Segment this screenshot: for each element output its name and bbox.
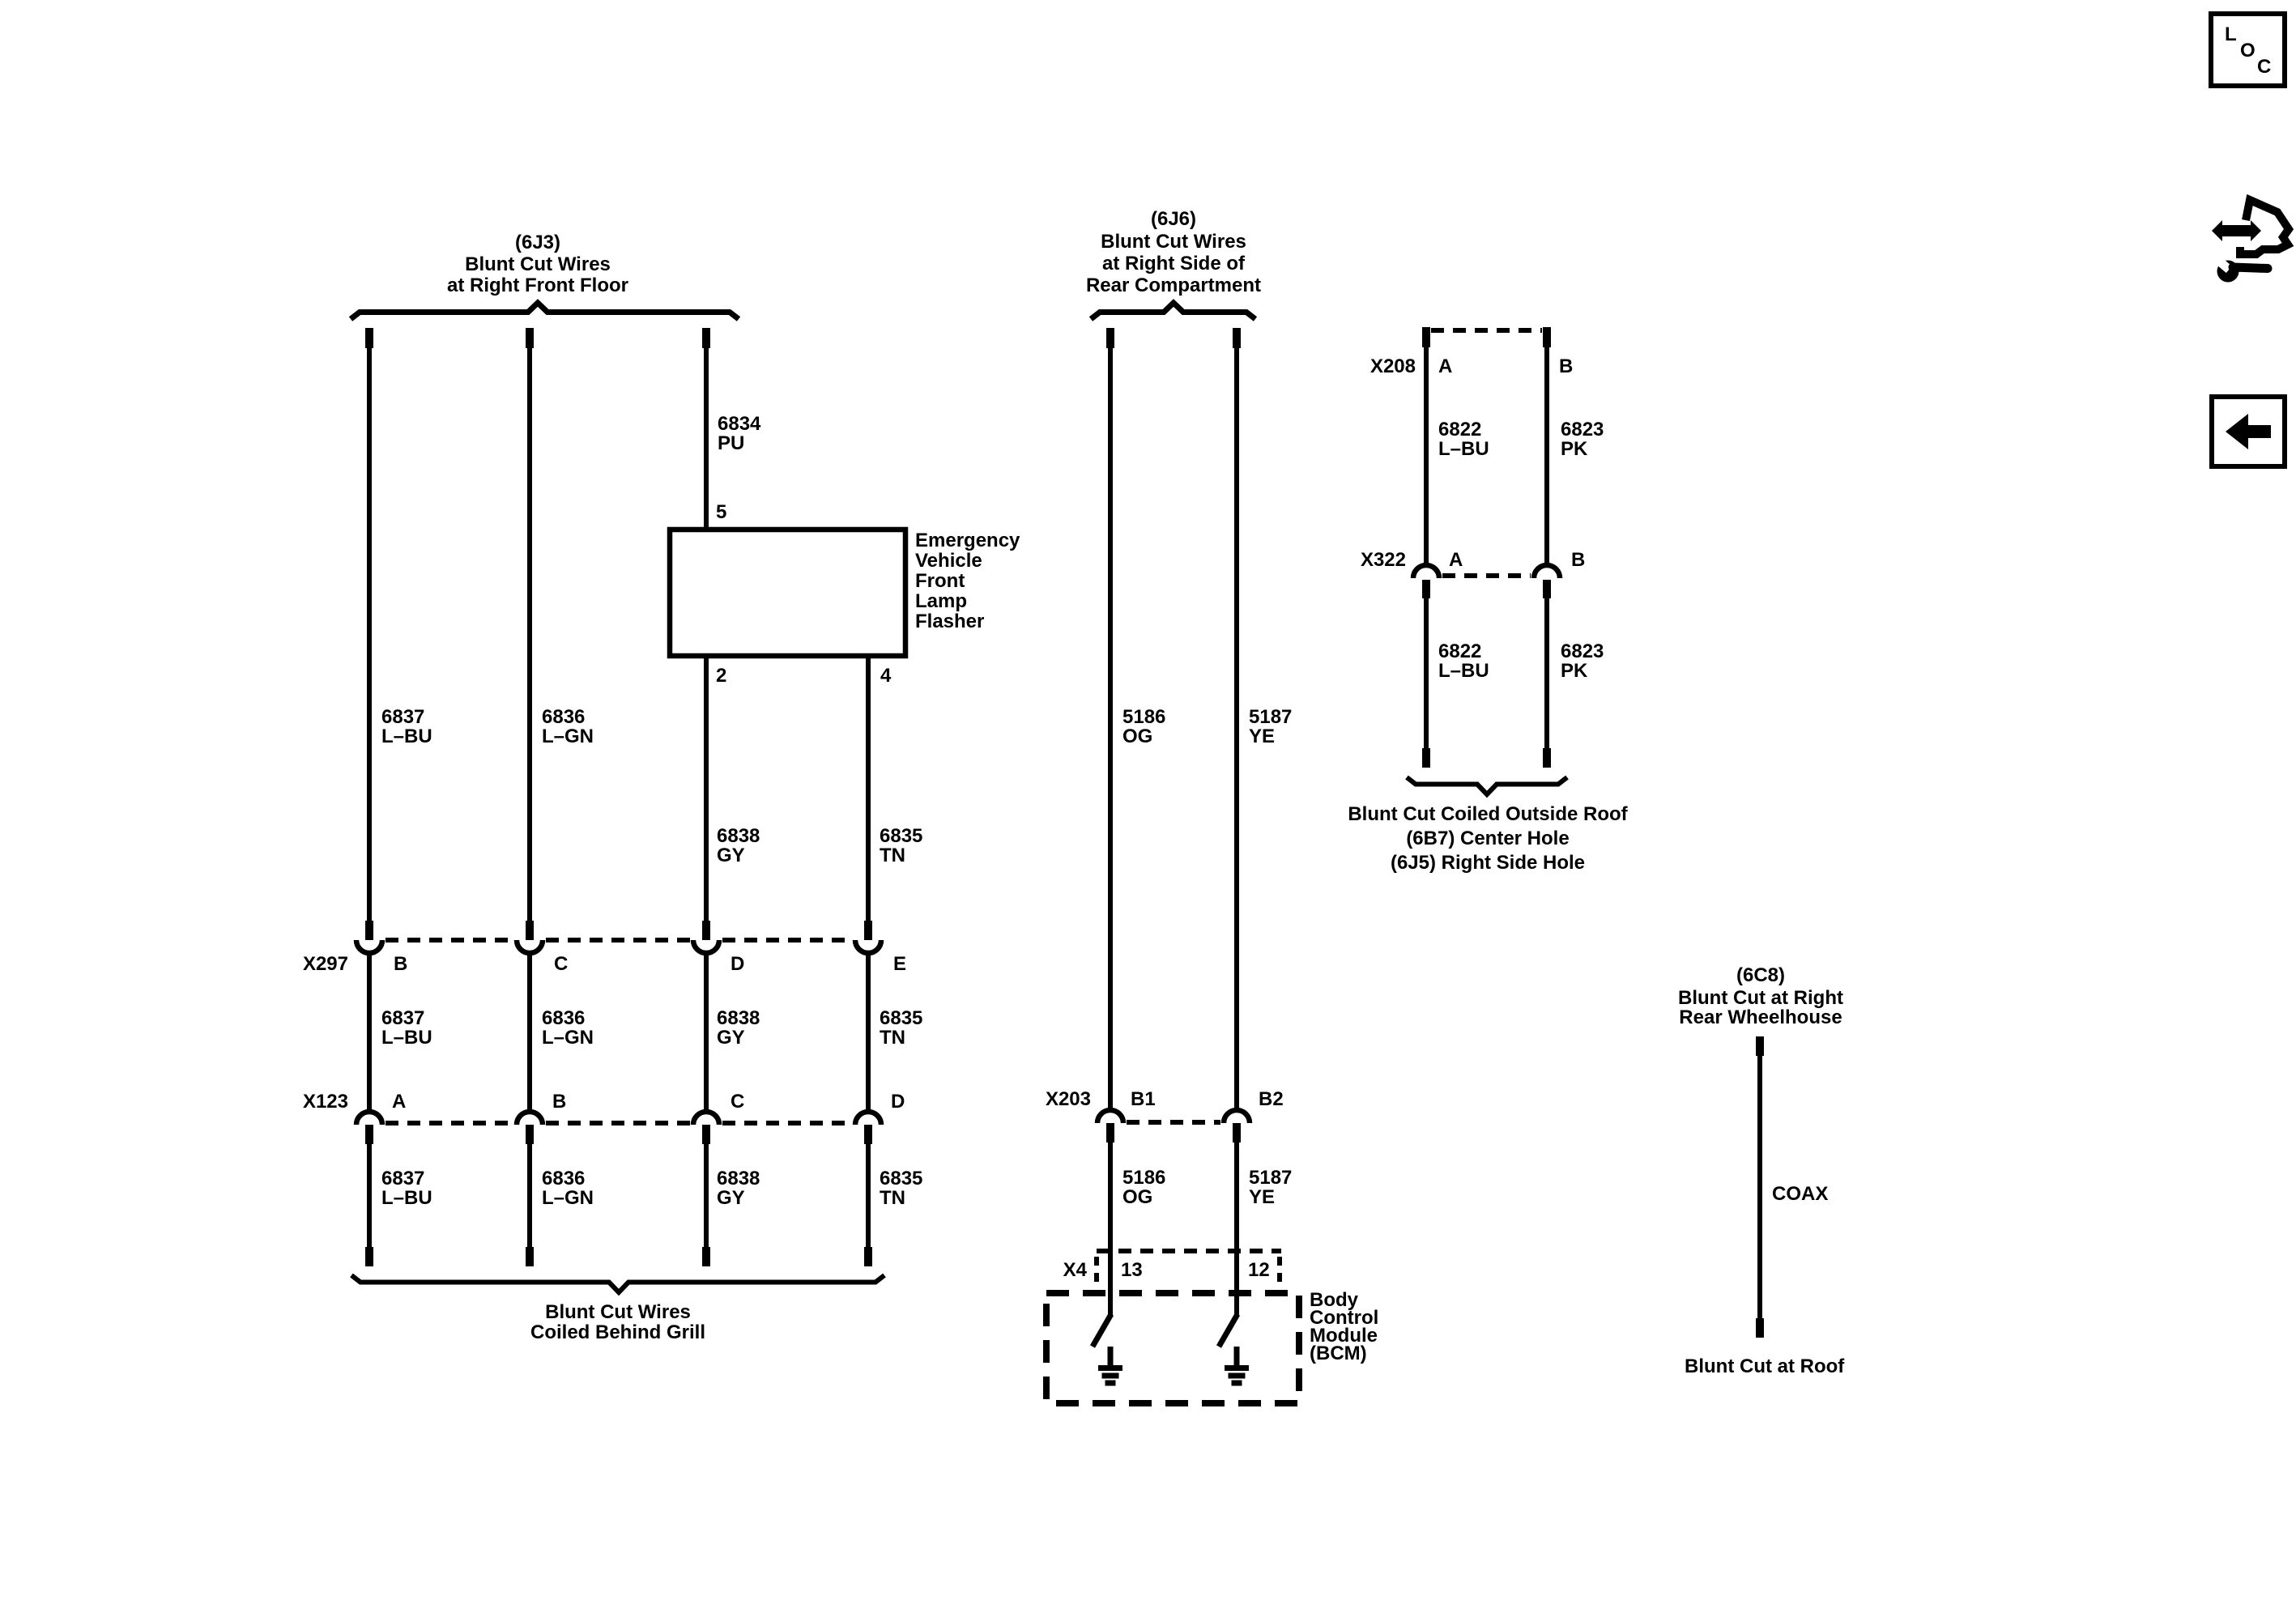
svg-text:B1: B1 <box>1131 1088 1156 1110</box>
svg-text:6835: 6835 <box>880 1168 922 1189</box>
wire 6835 blunt cut end cap (bottom) <box>864 1247 872 1266</box>
svg-text:L–BU: L–BU <box>381 1187 432 1209</box>
svg-text:6835: 6835 <box>880 1007 922 1029</box>
svg-text:6823: 6823 <box>1561 640 1604 662</box>
BCM pin 13 label <box>1121 1259 1143 1281</box>
svg-text:L–BU: L–BU <box>1438 438 1489 460</box>
icon back arrow box <box>2212 397 2285 466</box>
connector X297 male terminal pin B <box>365 921 373 940</box>
connector X123 label <box>303 1091 348 1113</box>
connector X4 dashed header line <box>1097 1249 1281 1253</box>
wire 6836 blunt cut end cap <box>526 328 534 348</box>
svg-text:5187: 5187 <box>1249 1167 1292 1189</box>
connector X123 female socket pin A <box>356 1112 382 1125</box>
wire label 5187 YE (lower) <box>1249 1167 1292 1208</box>
svg-text:YE: YE <box>1249 1186 1275 1208</box>
svg-text:Blunt Cut Coiled Outside Roof: Blunt Cut Coiled Outside Roof <box>1348 803 1628 825</box>
wire 6837 blunt cut end cap <box>365 328 373 348</box>
connector X297 female socket pin C <box>517 940 543 953</box>
wire 6837 blunt cut end cap (bottom) <box>365 1247 373 1266</box>
wire label 5187 YE (upper) <box>1249 706 1292 747</box>
connector X322 female socket pin A <box>1413 565 1439 578</box>
brace blunt cut coiled outside roof <box>1407 777 1567 794</box>
harness label (6J6) Blunt Cut Wires at Right Side of Rear Compartment <box>1086 208 1261 296</box>
wire 6836 L-GN segment (blunt cut to X297) <box>527 347 532 921</box>
svg-text:L–BU: L–BU <box>381 1027 432 1049</box>
svg-text:6837: 6837 <box>381 1168 424 1189</box>
svg-text:D: D <box>891 1091 905 1113</box>
svg-text:L–GN: L–GN <box>542 1027 594 1049</box>
wire label 6837 L-BU (lower) <box>381 1168 432 1209</box>
connector X203 female socket pin B1 <box>1097 1110 1123 1123</box>
wire label 5186 OG (upper) <box>1122 706 1165 747</box>
svg-text:Flasher: Flasher <box>915 611 984 632</box>
wire label 6836 L-GN (middle) <box>542 1007 594 1049</box>
svg-text:B: B <box>552 1091 566 1113</box>
wire 6837 L-BU segment (X123 to blunt cut behind grill) <box>367 1143 372 1249</box>
icon back arrow <box>2226 414 2271 449</box>
svg-text:YE: YE <box>1249 726 1275 747</box>
connector X297 pin B label <box>394 953 407 975</box>
wire 5186 blunt cut end cap <box>1106 328 1114 348</box>
svg-text:L: L <box>2225 23 2237 45</box>
wire 6834 PU segment (blunt cut to flasher pin 5) <box>704 347 709 530</box>
wire label 6823 PK (upper) <box>1561 419 1604 460</box>
svg-text:Blunt Cut at Right: Blunt Cut at Right <box>1678 987 1843 1009</box>
svg-text:Vehicle: Vehicle <box>915 550 982 572</box>
brace 6J6 harness <box>1091 303 1255 319</box>
connector X123 dashed mating line B-C <box>546 1121 690 1126</box>
icon vehicle silhouette with double arrow and wrench <box>2212 200 2289 283</box>
svg-text:GY: GY <box>717 845 745 866</box>
svg-text:X297: X297 <box>303 953 348 975</box>
wire 6822 L-BU segment (X208 to X322) <box>1424 347 1429 564</box>
svg-text:4: 4 <box>880 665 892 687</box>
wire 6835 TN segment (X123 to blunt cut behind grill) <box>866 1143 871 1249</box>
ground (BCM internal, right) <box>1225 1347 1249 1383</box>
connector X297 female socket pin B <box>356 940 382 953</box>
connector X297 pin C label <box>554 953 568 975</box>
svg-text:TN: TN <box>880 1187 905 1209</box>
svg-text:5186: 5186 <box>1122 706 1165 728</box>
wire label 6836 L-GN (lower) <box>542 1168 594 1209</box>
wire 5187 YE segment (X203 to BCM pin 12) <box>1234 1143 1239 1316</box>
connector X322 dashed mating line A-B <box>1442 573 1531 578</box>
brace 6J3 harness <box>351 303 739 319</box>
connector X203 male terminal pin B2 <box>1233 1123 1241 1143</box>
harness label (6C8) Blunt Cut at Right Rear Wheelhouse <box>1678 964 1843 1028</box>
svg-text:at Right Side of: at Right Side of <box>1102 253 1246 274</box>
svg-text:6836: 6836 <box>542 1007 585 1029</box>
svg-text:6838: 6838 <box>717 1168 760 1189</box>
svg-text:A: A <box>1438 355 1452 377</box>
svg-text:6838: 6838 <box>717 825 760 847</box>
connector X123 female socket pin D <box>855 1112 881 1125</box>
svg-text:B: B <box>1571 549 1585 571</box>
svg-text:Blunt Cut at Roof: Blunt Cut at Roof <box>1685 1355 1845 1377</box>
wire 6837 L-BU segment (blunt cut to X297) <box>367 347 372 921</box>
connector X297 pin D label <box>731 953 744 975</box>
svg-text:L–GN: L–GN <box>542 726 594 747</box>
connector X123 pin D label <box>891 1091 905 1113</box>
wire 6837 L-BU segment (X297 to X123) <box>367 954 372 1111</box>
component label Body Control Module (BCM) <box>1310 1289 1378 1364</box>
component box Emergency Vehicle Front Lamp Flasher <box>670 530 905 656</box>
wire 6838 GY segment (X123 to blunt cut behind grill) <box>704 1143 709 1249</box>
svg-text:B: B <box>1559 355 1573 377</box>
connector X123 male terminal pin C <box>702 1125 710 1144</box>
connector X297 male terminal pin C <box>526 921 534 940</box>
connector X203 female socket pin B2 <box>1224 1110 1250 1123</box>
connector X4 dashed left end tick <box>1094 1257 1099 1283</box>
svg-text:X123: X123 <box>303 1091 348 1113</box>
wire 5187 blunt cut end cap <box>1233 328 1241 348</box>
wire 6834 blunt cut end cap <box>702 328 710 348</box>
svg-text:(BCM): (BCM) <box>1310 1343 1367 1364</box>
svg-text:13: 13 <box>1121 1259 1143 1281</box>
svg-text:6836: 6836 <box>542 706 585 728</box>
svg-text:C: C <box>731 1091 744 1113</box>
wire 5186 OG segment (blunt cut to X203) <box>1108 347 1113 1108</box>
wire label 6837 L-BU (upper) <box>381 706 432 747</box>
pin 5 label <box>716 501 726 523</box>
brace blunt cut wires coiled behind grill <box>351 1275 884 1292</box>
wire 6823 PK segment (X322 to blunt cut outside roof) <box>1544 598 1549 750</box>
wire label 6835 TN (lower) <box>880 1168 922 1209</box>
connector X123 male terminal pin B <box>526 1125 534 1144</box>
svg-text:6834: 6834 <box>718 413 761 435</box>
svg-text:PU: PU <box>718 432 744 454</box>
svg-text:Blunt Cut Wires: Blunt Cut Wires <box>545 1301 691 1323</box>
connector X297 dashed mating line C-D <box>546 938 690 943</box>
wire COAX blunt cut end cap (bottom) <box>1756 1318 1764 1338</box>
svg-text:Rear Wheelhouse: Rear Wheelhouse <box>1679 1006 1842 1028</box>
svg-text:(6J5) Right Side Hole: (6J5) Right Side Hole <box>1391 852 1585 874</box>
svg-text:PK: PK <box>1561 438 1588 460</box>
svg-text:C: C <box>2257 56 2271 78</box>
svg-text:Coiled Behind Grill: Coiled Behind Grill <box>530 1321 705 1343</box>
svg-text:GY: GY <box>717 1027 745 1049</box>
connector X208 male terminal pin A <box>1422 327 1430 347</box>
wire label 6835 TN (upper) <box>880 825 922 866</box>
svg-text:(6C8): (6C8) <box>1736 964 1785 986</box>
wire label 6838 GY (lower) <box>717 1168 760 1209</box>
svg-text:6823: 6823 <box>1561 419 1604 440</box>
svg-text:Emergency: Emergency <box>915 530 1020 551</box>
harness label Blunt Cut Wires Coiled Behind Grill <box>530 1301 705 1343</box>
connector X4 label <box>1063 1259 1088 1281</box>
wire label COAX <box>1772 1183 1828 1205</box>
wire 6823 PK segment (X208 to X322) <box>1544 347 1549 564</box>
svg-text:A: A <box>1449 549 1463 571</box>
connector X322 pin B label <box>1571 549 1585 571</box>
connector X203 male terminal pin B1 <box>1106 1123 1114 1143</box>
wire 6838 GY segment (X297 to X123) <box>704 954 709 1111</box>
wire label 6837 L-BU (middle) <box>381 1007 432 1049</box>
connector X322 female socket pin B <box>1534 565 1560 578</box>
svg-text:B: B <box>394 953 407 975</box>
svg-text:5186: 5186 <box>1122 1167 1165 1189</box>
wire label 6836 L-GN (upper) <box>542 706 594 747</box>
wire 6822 L-BU segment (X322 to blunt cut outside roof) <box>1424 598 1429 750</box>
svg-text:6822: 6822 <box>1438 640 1481 662</box>
svg-text:X4: X4 <box>1063 1259 1088 1281</box>
svg-text:A: A <box>392 1091 406 1113</box>
wire 6836 L-GN segment (X123 to blunt cut behind grill) <box>527 1143 532 1249</box>
wire 6838 blunt cut end cap (bottom) <box>702 1247 710 1266</box>
connector X123 female socket pin B <box>517 1112 543 1125</box>
wire 5187 YE segment (blunt cut to X203) <box>1234 347 1239 1108</box>
svg-text:O: O <box>2240 40 2256 62</box>
connector X297 label <box>303 953 348 975</box>
connector X208 pin A label <box>1438 355 1452 377</box>
pin 2 label <box>716 665 726 687</box>
svg-text:(6J6): (6J6) <box>1151 208 1196 230</box>
wire 6823 blunt cut end cap (bottom) <box>1543 748 1551 768</box>
svg-text:5187: 5187 <box>1249 706 1292 728</box>
wire label 6822 L-BU (upper) <box>1438 419 1489 460</box>
svg-text:Front: Front <box>915 570 965 592</box>
svg-text:OG: OG <box>1122 726 1152 747</box>
connector X203 label <box>1046 1088 1091 1110</box>
connector X123 male terminal pin D <box>864 1125 872 1144</box>
svg-text:TN: TN <box>880 845 905 866</box>
svg-text:Rear Compartment: Rear Compartment <box>1086 274 1261 296</box>
wire 5186 OG segment (X203 to BCM pin 13) <box>1108 1143 1113 1316</box>
connector X208 dashed mating line A-B <box>1431 328 1542 333</box>
svg-text:6836: 6836 <box>542 1168 585 1189</box>
connector X123 pin A label <box>392 1091 406 1113</box>
svg-text:X203: X203 <box>1046 1088 1091 1110</box>
harness label Blunt Cut Coiled Outside Roof (6B7)(6J5) <box>1348 803 1628 874</box>
svg-text:5: 5 <box>716 501 726 523</box>
svg-text:6838: 6838 <box>717 1007 760 1029</box>
connector X297 female socket pin D <box>693 940 719 953</box>
svg-text:E: E <box>893 953 906 975</box>
connector X297 male terminal pin E <box>864 921 872 940</box>
connector X208 male terminal pin B <box>1543 327 1551 347</box>
svg-text:2: 2 <box>716 665 726 687</box>
connector X322 male terminal pin B <box>1543 580 1551 598</box>
connector X203 dashed mating line B1-B2 <box>1127 1120 1220 1125</box>
svg-text:TN: TN <box>880 1027 905 1049</box>
component label Emergency Vehicle Front Lamp Flasher <box>915 530 1020 632</box>
connector X208 pin B label <box>1559 355 1573 377</box>
connector X322 label <box>1361 549 1406 571</box>
wire 6835 TN segment (X297 to X123) <box>866 954 871 1111</box>
svg-text:OG: OG <box>1122 1186 1152 1208</box>
svg-text:C: C <box>554 953 568 975</box>
connector X208 label <box>1370 355 1416 377</box>
svg-text:L–BU: L–BU <box>1438 660 1489 682</box>
connector X297 pin E label <box>893 953 906 975</box>
BCM dashed component box <box>1046 1293 1299 1403</box>
svg-text:GY: GY <box>717 1187 745 1209</box>
svg-text:X208: X208 <box>1370 355 1416 377</box>
wire label 6822 L-BU (lower) <box>1438 640 1489 682</box>
connector X123 pin C label <box>731 1091 744 1113</box>
harness label (6J3) Blunt Cut Wires at Right Front Floor <box>447 232 628 296</box>
wire label 6838 GY (middle) <box>717 1007 760 1049</box>
svg-text:6837: 6837 <box>381 706 424 728</box>
node label Blunt Cut at Roof <box>1685 1355 1845 1377</box>
wire label 6823 PK (lower) <box>1561 640 1604 682</box>
icon LOC letters <box>2225 23 2271 78</box>
BCM pin 12 label <box>1248 1259 1270 1281</box>
connector X203 pin B1 label <box>1131 1088 1156 1110</box>
svg-text:COAX: COAX <box>1772 1183 1828 1205</box>
switch contact (BCM internal, pin 13) <box>1093 1314 1111 1347</box>
switch contact (BCM internal, pin 12) <box>1219 1314 1237 1347</box>
svg-text:X322: X322 <box>1361 549 1406 571</box>
connector X297 male terminal pin D <box>702 921 710 940</box>
svg-text:L–GN: L–GN <box>542 1187 594 1209</box>
connector X123 male terminal pin A <box>365 1125 373 1144</box>
svg-text:L–BU: L–BU <box>381 726 432 747</box>
pin 4 label <box>880 665 892 687</box>
svg-text:Blunt Cut Wires: Blunt Cut Wires <box>465 253 611 275</box>
connector X322 male terminal pin A <box>1422 580 1430 598</box>
svg-text:6837: 6837 <box>381 1007 424 1029</box>
wire label 6834 PU <box>718 413 761 454</box>
ground (BCM internal, left) <box>1098 1347 1122 1383</box>
connector X322 pin A label <box>1449 549 1463 571</box>
wire COAX blunt cut end cap (top) <box>1756 1036 1764 1056</box>
svg-text:6835: 6835 <box>880 825 922 847</box>
wire 6835 TN segment (flasher pin 4 to X297) <box>866 656 871 921</box>
wire 6838 GY segment (flasher pin 2 to X297) <box>704 656 709 921</box>
svg-text:(6J3): (6J3) <box>515 232 560 253</box>
connector X4 dashed right end tick <box>1277 1257 1282 1283</box>
wire label 6835 TN (middle) <box>880 1007 922 1049</box>
connector X123 dashed mating line C-D <box>722 1121 852 1126</box>
svg-text:Lamp: Lamp <box>915 590 967 612</box>
connector X123 dashed mating line A-B <box>386 1121 513 1126</box>
connector X297 dashed mating line D-E <box>722 938 852 943</box>
connector X123 pin B label <box>552 1091 566 1113</box>
wire label 5186 OG (lower) <box>1122 1167 1165 1208</box>
connector X203 pin B2 label <box>1259 1088 1284 1110</box>
svg-text:6822: 6822 <box>1438 419 1481 440</box>
connector X297 female socket pin E <box>855 940 881 953</box>
wire COAX segment <box>1757 1054 1762 1320</box>
svg-text:at Right Front Floor: at Right Front Floor <box>447 274 628 296</box>
svg-text:B2: B2 <box>1259 1088 1284 1110</box>
wire 6836 L-GN segment (X297 to X123) <box>527 954 532 1111</box>
wire 6822 blunt cut end cap (bottom) <box>1422 748 1430 768</box>
svg-text:D: D <box>731 953 744 975</box>
connector X297 dashed mating line B-C <box>386 938 513 943</box>
wire 6836 blunt cut end cap (bottom) <box>526 1247 534 1266</box>
wire label 6838 GY (upper) <box>717 825 760 866</box>
svg-text:(6B7) Center Hole: (6B7) Center Hole <box>1406 828 1569 849</box>
svg-text:PK: PK <box>1561 660 1588 682</box>
connector X123 female socket pin C <box>693 1112 719 1125</box>
svg-text:12: 12 <box>1248 1259 1270 1281</box>
svg-text:Blunt Cut Wires: Blunt Cut Wires <box>1101 231 1246 253</box>
icon LOC box <box>2211 14 2285 86</box>
